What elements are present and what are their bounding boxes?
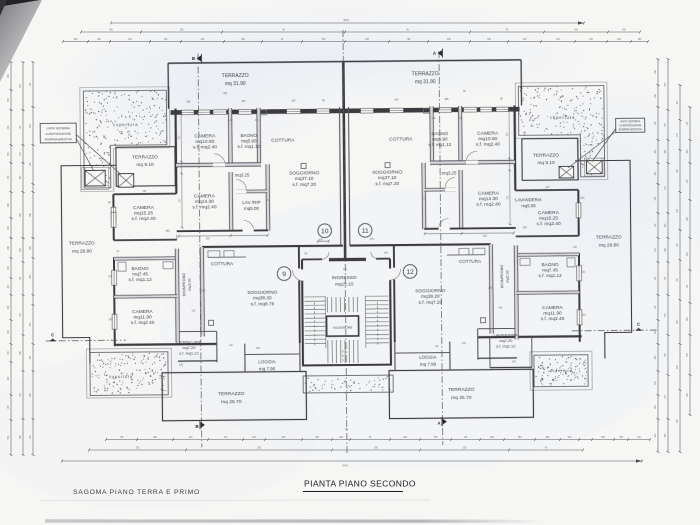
svg-text:3045: 3045 bbox=[342, 465, 348, 468]
svg-text:s.f. mq2.40: s.f. mq2.40 bbox=[537, 221, 562, 227]
svg-text:CAMERA: CAMERA bbox=[194, 133, 216, 139]
svg-text:s.f. mq1.12: s.f. mq1.12 bbox=[496, 344, 515, 349]
svg-text:3630: 3630 bbox=[343, 19, 349, 22]
svg-text:9: 9 bbox=[282, 271, 286, 278]
svg-text:TERRAZZO: TERRAZZO bbox=[412, 71, 439, 77]
svg-text:100: 100 bbox=[229, 119, 234, 122]
svg-text:105: 105 bbox=[108, 318, 113, 321]
svg-text:240: 240 bbox=[573, 246, 578, 249]
svg-text:240: 240 bbox=[255, 119, 260, 122]
svg-text:s.f. mq1.12: s.f. mq1.12 bbox=[129, 277, 153, 282]
svg-text:150: 150 bbox=[291, 100, 296, 103]
svg-text:CLIMATIZZAZIONE: CLIMATIZZAZIONE bbox=[619, 124, 641, 127]
svg-text:240: 240 bbox=[581, 314, 586, 317]
svg-text:240: 240 bbox=[498, 307, 503, 310]
svg-text:BAGNO: BAGNO bbox=[542, 262, 559, 267]
svg-text:TERRAZZO: TERRAZZO bbox=[218, 391, 245, 397]
svg-text:mq 31.90: mq 31.90 bbox=[415, 79, 436, 85]
svg-text:TERRAZZO: TERRAZZO bbox=[69, 240, 95, 246]
svg-text:s.f. mq2.40: s.f. mq2.40 bbox=[476, 142, 501, 148]
svg-text:100: 100 bbox=[191, 309, 196, 312]
svg-text:s.f. mq2.40: s.f. mq2.40 bbox=[541, 316, 565, 322]
svg-text:100: 100 bbox=[241, 100, 246, 103]
svg-text:mq 25.70: mq 25.70 bbox=[451, 395, 472, 401]
svg-text:UNITA' ESTERNA: UNITA' ESTERNA bbox=[620, 120, 641, 123]
svg-text:240: 240 bbox=[229, 344, 234, 347]
svg-text:s.f. mq7.20: s.f. mq7.20 bbox=[418, 300, 442, 306]
svg-text:CAMERA: CAMERA bbox=[542, 305, 563, 311]
svg-text:100: 100 bbox=[343, 268, 348, 271]
svg-text:11: 11 bbox=[362, 228, 369, 235]
svg-text:LOGGIA: LOGGIA bbox=[419, 355, 436, 360]
svg-text:mq15.10: mq15.10 bbox=[335, 282, 354, 287]
svg-text:LOGGIA: LOGGIA bbox=[258, 359, 275, 364]
svg-text:100: 100 bbox=[201, 289, 206, 292]
svg-text:mq7.20: mq7.20 bbox=[182, 345, 196, 350]
svg-text:s.f. mq1.12: s.f. mq1.12 bbox=[237, 144, 260, 149]
svg-text:mq37.10: mq37.10 bbox=[378, 175, 397, 181]
svg-text:copertura: copertura bbox=[550, 115, 575, 120]
svg-text:CAMERA: CAMERA bbox=[133, 205, 155, 211]
svg-text:CLIMATIZZAZIONE: CLIMATIZZAZIONE bbox=[45, 131, 71, 135]
svg-text:LATRINO /RIP: LATRINO /RIP bbox=[176, 339, 202, 344]
svg-text:BAGNO: BAGNO bbox=[132, 266, 149, 271]
svg-text:150: 150 bbox=[523, 226, 528, 229]
svg-text:SOGGIORNO: SOGGIORNO bbox=[372, 169, 402, 175]
svg-text:mq 31.90: mq 31.90 bbox=[225, 81, 246, 87]
svg-text:100: 100 bbox=[581, 271, 586, 274]
svg-text:100: 100 bbox=[389, 370, 394, 373]
svg-text:mq 7.90: mq 7.90 bbox=[420, 362, 437, 367]
svg-text:COTTURA: COTTURA bbox=[459, 259, 482, 264]
svg-text:105: 105 bbox=[458, 117, 463, 120]
svg-text:100: 100 bbox=[301, 370, 306, 373]
svg-text:mq15.25: mq15.25 bbox=[134, 210, 153, 216]
svg-text:DISIMPEGNO: DISIMPEGNO bbox=[182, 273, 186, 297]
svg-text:INGRESSO: INGRESSO bbox=[332, 275, 357, 280]
svg-text:10: 10 bbox=[321, 228, 329, 235]
svg-text:s.f. mq7.20: s.f. mq7.20 bbox=[292, 182, 316, 188]
svg-text:BAGNO: BAGNO bbox=[240, 133, 257, 138]
svg-text:TERRAZZO: TERRAZZO bbox=[533, 152, 559, 158]
svg-text:105: 105 bbox=[432, 117, 437, 120]
svg-text:s.f. mq7.20: s.f. mq7.20 bbox=[375, 181, 399, 187]
svg-text:mq3.25: mq3.25 bbox=[442, 170, 457, 175]
svg-text:mq38.20: mq38.20 bbox=[421, 294, 440, 300]
svg-text:mq7.20: mq7.20 bbox=[499, 338, 513, 343]
svg-text:240: 240 bbox=[545, 186, 550, 189]
svg-text:240: 240 bbox=[394, 99, 399, 102]
svg-text:mq 9.10: mq 9.10 bbox=[136, 162, 154, 168]
svg-text:B: B bbox=[192, 56, 195, 61]
svg-text:100: 100 bbox=[179, 364, 184, 367]
svg-text:mq3.30: mq3.30 bbox=[188, 278, 192, 290]
svg-text:SAGOMA PIANO TERRA E PRIMO: SAGOMA PIANO TERRA E PRIMO bbox=[73, 489, 200, 496]
svg-text:COTTURA: COTTURA bbox=[211, 261, 234, 266]
svg-text:mq7.45: mq7.45 bbox=[542, 268, 558, 273]
svg-text:copertura: copertura bbox=[550, 368, 573, 373]
svg-text:mq 7.90: mq 7.90 bbox=[259, 366, 276, 371]
svg-text:mq 9.10: mq 9.10 bbox=[537, 160, 555, 166]
svg-text:TERRAZZO: TERRAZZO bbox=[596, 234, 622, 240]
svg-text:105: 105 bbox=[512, 360, 517, 363]
svg-text:CAMERA: CAMERA bbox=[478, 191, 500, 197]
svg-text:s.f. mq8.76: s.f. mq8.76 bbox=[251, 301, 275, 307]
svg-text:105: 105 bbox=[483, 235, 488, 238]
svg-text:CAMERA: CAMERA bbox=[538, 210, 560, 216]
svg-text:240: 240 bbox=[370, 238, 375, 241]
svg-text:COTTURA: COTTURA bbox=[271, 138, 295, 144]
svg-text:LAVANDERIA: LAVANDERIA bbox=[494, 332, 519, 337]
svg-text:s.f. mq2.40: s.f. mq2.40 bbox=[476, 202, 501, 208]
svg-text:100: 100 bbox=[319, 238, 324, 241]
svg-text:150: 150 bbox=[580, 197, 585, 200]
svg-text:385: 385 bbox=[223, 92, 228, 95]
svg-text:ASCENSORE: ASCENSORE bbox=[333, 325, 352, 329]
svg-text:mq10.90: mq10.90 bbox=[478, 136, 497, 142]
svg-text:CAMERA: CAMERA bbox=[132, 309, 153, 315]
svg-text:mq14.30: mq14.30 bbox=[479, 196, 498, 202]
svg-text:mq7.45: mq7.45 bbox=[132, 272, 148, 277]
svg-text:DISIMPEGNO: DISIMPEGNO bbox=[500, 265, 504, 289]
svg-text:mq5.30: mq5.30 bbox=[506, 270, 510, 282]
svg-text:copertura: copertura bbox=[113, 122, 138, 127]
svg-text:240: 240 bbox=[384, 252, 389, 255]
svg-text:SOGGIORNO: SOGGIORNO bbox=[289, 170, 319, 176]
svg-text:mq10.90: mq10.90 bbox=[195, 139, 214, 145]
svg-text:100: 100 bbox=[142, 190, 147, 193]
svg-text:s.f. mq2.40: s.f. mq2.40 bbox=[193, 144, 218, 150]
svg-text:CAMERA: CAMERA bbox=[477, 131, 499, 137]
svg-text:SOGGIORNO: SOGGIORNO bbox=[247, 290, 277, 296]
svg-text:240: 240 bbox=[256, 347, 261, 350]
svg-text:copertura: copertura bbox=[109, 374, 133, 379]
svg-text:105: 105 bbox=[488, 287, 493, 290]
svg-text:TERRAZZO: TERRAZZO bbox=[132, 154, 158, 160]
svg-text:mq 29.80: mq 29.80 bbox=[599, 243, 619, 249]
svg-text:385: 385 bbox=[186, 101, 191, 104]
svg-text:240: 240 bbox=[462, 342, 467, 345]
svg-text:mq11.90: mq11.90 bbox=[543, 311, 562, 317]
svg-text:mq14.30: mq14.30 bbox=[195, 199, 214, 205]
svg-text:mq37.10: mq37.10 bbox=[295, 176, 314, 182]
svg-text:CAMERA: CAMERA bbox=[194, 193, 216, 199]
svg-text:s.f. mq2.40: s.f. mq2.40 bbox=[131, 320, 155, 326]
svg-text:UNITA' ESTERNA: UNITA' ESTERNA bbox=[46, 126, 70, 130]
svg-text:mq5.08: mq5.08 bbox=[521, 203, 536, 208]
svg-text:385: 385 bbox=[166, 230, 171, 233]
svg-text:105: 105 bbox=[108, 275, 113, 278]
svg-text:s.f. mq2.40: s.f. mq2.40 bbox=[131, 216, 156, 222]
svg-text:mq 29.80: mq 29.80 bbox=[72, 249, 92, 255]
svg-text:s.f. mq1.12: s.f. mq1.12 bbox=[179, 351, 198, 356]
svg-text:COTTURA: COTTURA bbox=[389, 136, 413, 142]
svg-text:mq3.25: mq3.25 bbox=[235, 172, 250, 177]
svg-text:mq15.25: mq15.25 bbox=[539, 216, 558, 222]
svg-text:LAVANDERIA: LAVANDERIA bbox=[515, 197, 542, 202]
svg-text:385: 385 bbox=[444, 98, 449, 101]
svg-text:mq38.20: mq38.20 bbox=[253, 295, 272, 301]
svg-text:PIANTA PIANO SECONDO: PIANTA PIANO SECONDO bbox=[304, 479, 416, 489]
svg-text:TERRAZZO: TERRAZZO bbox=[222, 73, 249, 79]
svg-text:mq11.90: mq11.90 bbox=[133, 315, 152, 321]
svg-text:mq5.00: mq5.00 bbox=[244, 206, 260, 211]
svg-text:100: 100 bbox=[206, 237, 211, 240]
svg-text:s.f. mq1.12: s.f. mq1.12 bbox=[539, 273, 563, 278]
svg-text:mq5.90: mq5.90 bbox=[241, 138, 257, 143]
svg-text:12: 12 bbox=[406, 269, 414, 276]
svg-text:LAV /RIP: LAV /RIP bbox=[242, 200, 260, 205]
svg-text:B: B bbox=[195, 424, 198, 429]
svg-text:INVERNALE/ESTIVA: INVERNALE/ESTIVA bbox=[618, 128, 642, 131]
svg-text:INVERNALE/ESTIVA: INVERNALE/ESTIVA bbox=[45, 137, 72, 141]
svg-text:mq 25.70: mq 25.70 bbox=[221, 399, 242, 405]
svg-text:s.f. mq2.40: s.f. mq2.40 bbox=[192, 204, 217, 210]
svg-text:TERRAZZO: TERRAZZO bbox=[448, 387, 475, 393]
